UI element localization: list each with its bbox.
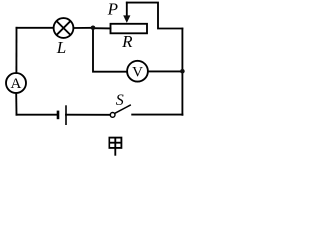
svg-text:V: V xyxy=(132,64,143,80)
wire left vertical lower xyxy=(15,93,17,115)
wire switch to bottom-right xyxy=(132,114,182,116)
wire right vertical xyxy=(181,29,183,115)
wire bottom to battery xyxy=(17,114,58,116)
slider P shaft xyxy=(126,3,128,17)
svg-text:R: R xyxy=(121,32,133,51)
lamp L (circle) xyxy=(54,18,74,38)
wire left vertical upper xyxy=(15,28,17,73)
svg-text:L: L xyxy=(56,38,66,57)
wire voltmeter to right vertical xyxy=(148,70,182,72)
wire battery to switch xyxy=(66,114,110,116)
slider P arrowhead xyxy=(123,15,130,23)
voltmeter V (circle) xyxy=(127,61,148,82)
wire junction A down to voltmeter xyxy=(93,28,127,72)
svg-text:S: S xyxy=(116,92,124,109)
wire lamp to junction A xyxy=(73,27,93,29)
resistor R body xyxy=(111,24,148,34)
lamp L cross xyxy=(57,21,71,35)
junction node A (dot) xyxy=(91,26,96,31)
ammeter A (circle) xyxy=(6,73,26,93)
switch S lever xyxy=(115,105,130,113)
switch S pivot xyxy=(110,113,115,118)
junction node B (dot) xyxy=(180,69,185,74)
label 甲 (drawn glyph) xyxy=(109,138,121,156)
battery negative plate (short) xyxy=(57,112,60,118)
wire top-left horizontal xyxy=(17,27,54,29)
battery positive plate (long) xyxy=(65,106,67,124)
svg-text:A: A xyxy=(10,76,21,92)
wire slider top run xyxy=(127,3,183,29)
svg-text:P: P xyxy=(107,0,118,19)
wire junction A to resistor xyxy=(93,27,111,29)
